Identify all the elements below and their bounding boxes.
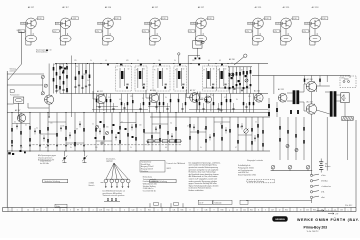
svg-text:Teleskop-: Teleskop- (10, 69, 17, 71)
driver transformer Tr1 (293, 90, 296, 104)
pre-driver transistor T7 (254, 94, 263, 103)
svg-text:C47: C47 (271, 210, 274, 212)
if strip lower rail (7, 112, 270, 114)
svg-text:R60: R60 (313, 210, 316, 212)
svg-text:C22: C22 (132, 210, 135, 212)
band switch contact 1 (64, 151, 66, 156)
IF amp transistor T3 (149, 93, 159, 103)
svg-text:C18: C18 (99, 210, 102, 212)
output transistor T9 (306, 81, 316, 91)
vertical wire to mixer (187, 56, 189, 94)
svg-text:30: 30 (183, 68, 185, 70)
svg-text:40: 40 (208, 60, 210, 62)
svg-text:AF 117: AF 117 (62, 6, 69, 9)
legend boxes above middle (198, 200, 212, 204)
svg-text:5k: 5k (174, 60, 176, 62)
svg-text:5k: 5k (200, 147, 202, 149)
dial area small parts (107, 199, 109, 201)
svg-text:aggregat: aggregat (106, 160, 113, 163)
IF transformer Fi2 dashed box (135, 66, 147, 91)
svg-text:1k: 1k (92, 124, 94, 126)
svg-text:8k: 8k (70, 147, 72, 149)
svg-text:R41: R41 (250, 210, 253, 212)
terminal circle above rail (178, 53, 180, 55)
svg-text:5k: 5k (121, 122, 123, 124)
wires output area (326, 76, 328, 83)
svg-text:220: 220 (139, 125, 142, 127)
svg-text:Tastensatz von vorn gesehen: Tastensatz von vorn gesehen (103, 194, 125, 197)
svg-text:WERKE GMBH FÜRTH (BAY.): WERKE GMBH FÜRTH (BAY.) (297, 217, 360, 222)
right side strings (279, 117, 281, 160)
svg-text:GB 21: GB 21 (166, 168, 171, 170)
tone network row (148, 140, 153, 143)
agc cluster parts (96, 126, 99, 129)
wires at IF transistors (93, 98, 96, 100)
svg-text:125: 125 (130, 96, 133, 98)
svg-text:30: 30 (166, 68, 168, 70)
svg-text:315: 315 (201, 98, 204, 100)
interstage parts (96, 94, 98, 113)
svg-text:220: 220 (192, 60, 195, 62)
IF transformer Fi3 dashed box (153, 66, 170, 91)
coupling caps (62, 89, 64, 91)
wire to switch stack (246, 200, 312, 202)
wire (273, 76, 275, 95)
GRUNDIG logo box (272, 216, 287, 221)
svg-text:AC 151: AC 151 (278, 88, 284, 91)
svg-text:Bereich: Bereich (89, 184, 95, 187)
output transistor T10 (306, 104, 316, 114)
wire (28, 107, 49, 109)
jack strip hatched (342, 117, 354, 121)
left frame wire (6, 71, 8, 208)
svg-text:GRUNDIG: GRUNDIG (275, 219, 285, 221)
svg-text:AC 151: AC 151 (255, 6, 263, 9)
rail end components (8, 152, 11, 154)
svg-text:1k: 1k (130, 147, 132, 149)
trimmer C2 (44, 84, 47, 87)
pulley (115, 179, 119, 183)
lower-left component strings (11, 113, 13, 152)
pulley (110, 179, 114, 183)
battery B1 (319, 161, 323, 163)
right frame wire (355, 120, 357, 208)
pulley (104, 179, 108, 183)
svg-text:220: 220 (95, 147, 98, 149)
svg-text:40: 40 (231, 63, 233, 65)
if lower rail segment 2 (92, 109, 148, 111)
long wire (93, 63, 95, 113)
IF transformer Fi1 dashed box (116, 66, 132, 91)
case outline T2 (60, 35, 71, 42)
svg-text:AF 117: AF 117 (28, 6, 35, 9)
svg-text:Betriebsspannung 9V: Betriebsspannung 9V (38, 159, 55, 162)
lower band extra caps (16, 125, 18, 127)
earphone jack dashed box (340, 76, 356, 88)
svg-text:AF 116: AF 116 (105, 6, 112, 9)
label box gedruckte schaltung left (43, 179, 68, 182)
pickup table (140, 161, 165, 173)
svg-text:68: 68 (219, 60, 221, 62)
svg-text:C12: C12 (62, 210, 65, 212)
IF amp transistor T4 (190, 93, 200, 103)
IF transformer Fi5 dashed box (203, 66, 217, 91)
svg-text:40: 40 (14, 122, 16, 124)
svg-text:AF 117: AF 117 (190, 89, 195, 92)
agc dash-dot line (29, 144, 182, 146)
front-end dark cluster (61, 67, 63, 69)
legend small box above (55, 204, 67, 207)
if mid rail segments (96, 106, 118, 108)
oscillator cluster (229, 67, 231, 94)
svg-text:AF 117: AF 117 (198, 6, 205, 9)
svg-text:10: 10 (236, 210, 238, 212)
svg-text:4,7k: 4,7k (54, 64, 57, 66)
pot row on rail (271, 165, 275, 169)
agc diode (100, 142, 104, 144)
svg-text:125: 125 (20, 147, 23, 149)
svg-text:C4: C4 (27, 210, 29, 212)
svg-text:0,5: 0,5 (170, 123, 172, 125)
svg-text:Gedruckte Schaltung: Gedruckte Schaltung (44, 180, 60, 183)
svg-text:47: 47 (187, 126, 189, 128)
connector box above rail (193, 41, 202, 49)
svg-text:0,1: 0,1 (36, 128, 38, 130)
svg-text:C31: C31 (173, 210, 176, 212)
legend symbols right (317, 210, 324, 212)
svg-text:30: 30 (143, 68, 145, 70)
junction dots on rail (56, 63, 57, 64)
svg-text:AC 153: AC 153 (307, 100, 313, 103)
svg-text:0,1: 0,1 (212, 95, 214, 97)
IF transformer Fi4 dashed box (174, 66, 187, 91)
svg-text:R52: R52 (285, 210, 288, 212)
telescopic antenna (19, 32, 25, 34)
svg-text:Tr.-Nr. 700 712: Tr.-Nr. 700 712 (307, 231, 319, 233)
svg-text:1k: 1k (189, 96, 191, 98)
legend arrow symbol 2 (328, 213, 334, 215)
svg-text:30: 30 (213, 68, 215, 70)
case outline T3 (102, 35, 113, 42)
driver transformer leads (287, 92, 293, 94)
case outline T5 (195, 35, 206, 42)
IF transformer Fi6 dashed box (217, 66, 229, 91)
svg-text:Klirrfaktor: Klirrfaktor (141, 170, 149, 173)
svg-text:5k: 5k (87, 80, 89, 82)
svg-text:R33: R33 (221, 210, 224, 212)
svg-text:5k: 5k (165, 97, 167, 99)
label box mitte (150, 179, 176, 182)
svg-text:AF 117: AF 117 (15, 109, 20, 112)
svg-text:6k: 6k (240, 127, 242, 129)
svg-text:AC 151: AC 151 (283, 6, 291, 9)
case outline T4 (149, 35, 160, 42)
svg-text:Ohrh.: Ohrh. (341, 78, 346, 80)
tuning pointer (234, 57, 244, 66)
main supply rail top (55, 63, 268, 65)
tuning capacitor C1 (41, 75, 44, 78)
svg-text:UKW: UKW (17, 30, 21, 32)
junctions (12, 112, 13, 113)
svg-text:= Regelspannung: = Regelspannung (325, 210, 337, 212)
svg-text:C63: C63 (340, 210, 343, 212)
svg-text:0,1: 0,1 (105, 60, 107, 62)
demodulator transistor T5 (205, 96, 212, 103)
svg-text:AC 151: AC 151 (254, 90, 260, 93)
svg-text:47: 47 (235, 147, 237, 149)
agc transistor T6 (17, 114, 25, 122)
mid component strings (95, 113, 97, 152)
trimmer C3 (41, 92, 44, 95)
osc extra parts (231, 77, 233, 79)
svg-text:AF 117: AF 117 (152, 6, 159, 9)
front-end component column (53, 64, 55, 94)
svg-text:C36: C36 (205, 210, 208, 212)
frame tap box (10, 90, 14, 93)
bottom distribution rail (271, 170, 313, 172)
pulley (127, 179, 131, 183)
volume control P1 (244, 129, 248, 133)
svg-text:12: 12 (279, 210, 281, 212)
speaker LS (341, 93, 349, 103)
section wire (71, 56, 73, 118)
legend cell ticks (7, 208, 9, 212)
svg-text:47: 47 (224, 97, 226, 99)
svg-text:Tonblende: Tonblende (214, 202, 221, 204)
band switch contact 2 (84, 151, 86, 156)
svg-text:AC 153: AC 153 (312, 6, 320, 9)
svg-text:6k: 6k (241, 70, 243, 72)
svg-text:30: 30 (128, 68, 130, 70)
svg-text:AF 116: AF 116 (150, 89, 156, 92)
svg-text:315: 315 (106, 127, 109, 129)
svg-text:c Ladebuchse: c Ladebuchse (321, 186, 331, 188)
svg-text:68: 68 (165, 147, 167, 149)
svg-text:30: 30 (137, 60, 139, 62)
svg-text:220: 220 (153, 95, 156, 97)
svg-text:10 nF: 10 nF (199, 202, 203, 204)
svg-text:R7: R7 (37, 210, 39, 212)
svg-text:2k: 2k (142, 98, 144, 100)
wire column x75-90 (75, 64, 77, 94)
svg-text:10k: 10k (62, 126, 65, 128)
svg-text:4k: 4k (25, 125, 27, 127)
pulley (121, 179, 125, 183)
svg-text:Gedruckte Schaltung: Gedruckte Schaltung (248, 180, 264, 183)
output transformer Tr2 (330, 91, 333, 117)
case outline T6 (252, 35, 263, 42)
audio feedback parts (268, 104, 270, 108)
svg-text:Skala: Skala (56, 206, 60, 208)
output bias parts (304, 79, 306, 82)
svg-text:8k: 8k (155, 128, 157, 130)
svg-text:68: 68 (76, 129, 78, 131)
IF amp transistor T2 (96, 94, 106, 104)
svg-text:Prima-Boy 203: Prima-Boy 203 (304, 226, 328, 230)
thermistor cluster (286, 144, 289, 147)
svg-text:R21: R21 (148, 210, 151, 212)
svg-text:22: 22 (259, 98, 261, 100)
svg-text:30: 30 (225, 68, 227, 70)
svg-text:bei 100 kHz: bei 100 kHz (40, 163, 49, 165)
rf transistor T1 (45, 95, 54, 104)
svg-text:40: 40 (45, 147, 47, 149)
svg-text:AF 117: AF 117 (97, 90, 103, 93)
ferrite antenna L1 (14, 97, 24, 103)
svg-text:470: 470 (126, 60, 129, 62)
svg-text:125: 125 (74, 60, 77, 62)
svg-text:AF 116: AF 116 (229, 58, 235, 61)
driver transistor T8 (278, 94, 287, 103)
osc trimmers (231, 73, 234, 76)
wire (48, 64, 50, 96)
svg-text:220: 220 (83, 74, 86, 76)
svg-text:8k: 8k (236, 99, 238, 101)
svg-text:13: 13 (300, 210, 302, 212)
svg-text:R14: R14 (107, 210, 110, 212)
svg-text:= NF: = NF (335, 213, 338, 215)
svg-text:C55: C55 (306, 210, 309, 212)
mid rail component strings 2 (189, 117, 191, 151)
legend strip rails (3, 207, 357, 209)
svg-text:1k: 1k (90, 60, 92, 62)
case outline T8 (309, 35, 320, 42)
svg-text:1k: 1k (76, 66, 78, 68)
svg-text:Stand: September 1962: Stand: September 1962 (238, 173, 256, 176)
svg-text:11: 11 (258, 210, 260, 212)
svg-text:470: 470 (97, 95, 100, 97)
svg-text:10k: 10k (158, 60, 161, 62)
dial cord fan (106, 163, 114, 179)
lower band horizontal links (12, 123, 30, 125)
ticks above legend strip (149, 203, 151, 207)
case outline T7 (280, 35, 291, 42)
front-end horizontal links (7, 73, 44, 75)
svg-text:C42: C42 (243, 210, 246, 212)
svg-text:68: 68 (119, 99, 121, 101)
svg-text:130: 130 (246, 86, 249, 88)
svg-text:150: 150 (248, 96, 251, 98)
svg-text:AC 153: AC 153 (307, 78, 313, 81)
parts on supply rail (107, 64, 109, 66)
diode D1 (219, 109, 223, 111)
svg-text:40: 40 (177, 99, 179, 101)
output transformer leads (317, 85, 330, 87)
IF bottom rail (60, 93, 268, 95)
switch contact stack (310, 174, 312, 176)
svg-text:R9: R9 (77, 210, 79, 212)
svg-text:bleiben vorbehalten.: bleiben vorbehalten. (189, 189, 205, 192)
label box dashed right (247, 179, 275, 182)
svg-text:125: 125 (50, 123, 53, 125)
svg-text:1k: 1k (255, 122, 257, 124)
svg-text:Osz 1515 kHz 2b: Osz 1515 kHz 2b (143, 190, 156, 192)
case outline T1 (25, 35, 36, 42)
svg-text:R26: R26 (181, 210, 184, 212)
interstage caps and labels (98, 106, 100, 108)
small parts top edge near mixer (195, 58, 197, 60)
svg-text:Trennsch. bei TA-Betrieb: Trennsch. bei TA-Betrieb (166, 162, 185, 165)
audio supply rail (252, 75, 350, 77)
svg-text:220: 220 (61, 64, 64, 66)
mid rail (150, 116, 270, 118)
lower rail (7, 150, 270, 152)
svg-text:10: 10 (108, 97, 110, 99)
